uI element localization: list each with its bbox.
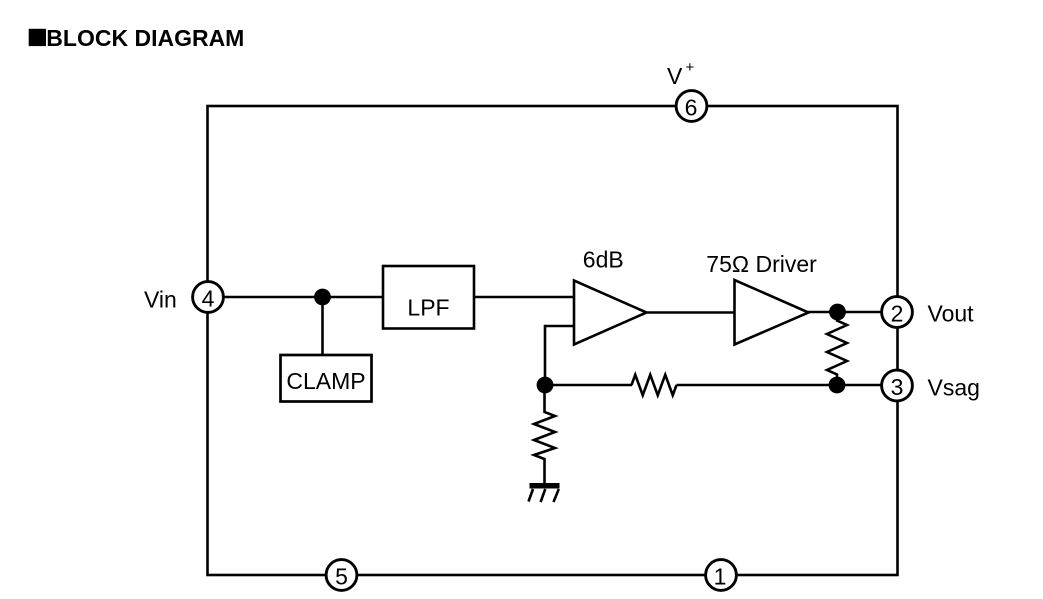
pin 5 bbox=[326, 560, 357, 591]
svg-text:6: 6 bbox=[685, 94, 698, 120]
resistor R3 vertical (to ground) bbox=[534, 385, 555, 483]
op-amp 6dB triangle bbox=[574, 281, 647, 345]
wire LPF to 6dB amp bbox=[474, 296, 574, 299]
wire Vsag feedback line right part bbox=[677, 384, 898, 387]
pin 2 (Vout) bbox=[882, 297, 913, 328]
svg-text:Vin: Vin bbox=[144, 287, 177, 313]
svg-text:5: 5 bbox=[335, 563, 348, 589]
wire junction to CLAMP bbox=[321, 297, 324, 356]
svg-text:LPF: LPF bbox=[407, 294, 449, 320]
svg-text:Vout: Vout bbox=[928, 301, 975, 327]
block CLAMP bbox=[281, 355, 372, 402]
resistor R2 vertical (Vout to Vsag) bbox=[827, 312, 847, 385]
resistor R1 horizontal (feedback) bbox=[632, 375, 677, 395]
wire Vsag feedback line left part bbox=[545, 384, 632, 387]
wire Vin input run (pin4 to LPF) bbox=[208, 296, 383, 299]
svg-text:BLOCK DIAGRAM: BLOCK DIAGRAM bbox=[46, 25, 244, 51]
wire outer boundary rectangle bbox=[208, 106, 898, 575]
pin 6 (V+) bbox=[676, 91, 707, 122]
ground symbol bbox=[529, 483, 560, 502]
wire driver apex to pin 2 bbox=[807, 311, 897, 314]
svg-text:V: V bbox=[667, 63, 683, 89]
wire feedback from 6dB inverting input down bbox=[545, 326, 574, 385]
svg-text:1: 1 bbox=[714, 563, 727, 589]
node junction dot B (Vout) bbox=[829, 304, 846, 321]
wire 6dB apex to driver input bbox=[645, 311, 735, 314]
node junction dot D (Vsag left) bbox=[537, 377, 554, 394]
node junction dot C (Vsag right) bbox=[829, 377, 846, 394]
pin 3 (Vsag) bbox=[882, 370, 913, 401]
op-amp 75ohm driver triangle bbox=[735, 280, 809, 345]
node junction dot A (Vin/CLAMP) bbox=[314, 289, 331, 306]
title square bullet bbox=[29, 29, 46, 46]
block LPF bbox=[383, 266, 474, 329]
svg-text:4: 4 bbox=[202, 285, 215, 311]
pin 4 (Vin) bbox=[193, 282, 224, 313]
svg-text:6dB: 6dB bbox=[583, 247, 624, 273]
svg-text:+: + bbox=[686, 59, 695, 76]
svg-text:2: 2 bbox=[891, 300, 904, 326]
svg-text:Vsag: Vsag bbox=[928, 374, 980, 400]
svg-text:3: 3 bbox=[891, 374, 904, 400]
svg-text:75Ω Driver: 75Ω Driver bbox=[706, 251, 817, 277]
pin 1 bbox=[706, 560, 737, 591]
svg-text:CLAMP: CLAMP bbox=[286, 368, 365, 394]
